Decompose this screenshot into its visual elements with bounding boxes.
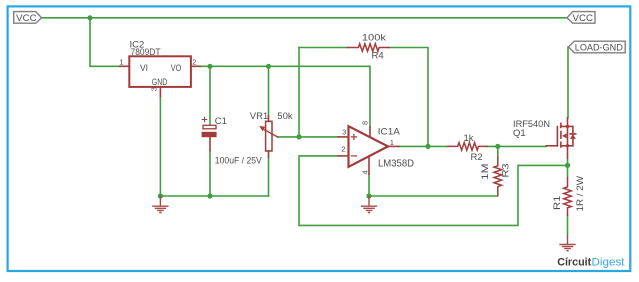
svg-text:VI: VI bbox=[140, 63, 148, 74]
svg-text:1M: 1M bbox=[480, 163, 491, 180]
svg-text:VCC: VCC bbox=[573, 13, 594, 23]
svg-text:VO: VO bbox=[171, 63, 182, 74]
svg-text:R4: R4 bbox=[372, 50, 384, 61]
svg-text:VR1: VR1 bbox=[250, 111, 268, 122]
svg-text:Q1: Q1 bbox=[513, 128, 526, 139]
svg-text:R3: R3 bbox=[501, 164, 512, 178]
svg-text:LM358D: LM358D bbox=[378, 159, 414, 170]
svg-text:1: 1 bbox=[390, 138, 394, 147]
svg-text:C1: C1 bbox=[215, 116, 227, 127]
svg-text:R1: R1 bbox=[552, 196, 563, 211]
svg-text:50k: 50k bbox=[277, 111, 293, 122]
svg-text:4: 4 bbox=[360, 170, 369, 174]
svg-text:LOAD-GND: LOAD-GND bbox=[575, 42, 623, 52]
svg-text:1: 1 bbox=[119, 57, 123, 66]
svg-text:8: 8 bbox=[360, 121, 369, 125]
svg-text:2: 2 bbox=[341, 145, 345, 154]
svg-text:3: 3 bbox=[342, 128, 346, 137]
svg-text:GND: GND bbox=[152, 77, 168, 88]
svg-text:7809DT: 7809DT bbox=[131, 47, 161, 58]
svg-text:Círcuit: Círcuit bbox=[557, 256, 591, 268]
svg-text:VCC: VCC bbox=[16, 13, 37, 23]
svg-text:R2: R2 bbox=[471, 152, 483, 163]
svg-text:100k: 100k bbox=[362, 33, 386, 44]
svg-text:1R / 2W: 1R / 2W bbox=[575, 176, 586, 212]
svg-text:Digest: Digest bbox=[592, 256, 625, 268]
svg-text:1k: 1k bbox=[464, 133, 474, 144]
svg-text:3: 3 bbox=[150, 87, 159, 91]
svg-text:100uF / 25V: 100uF / 25V bbox=[215, 155, 263, 166]
svg-text:IC1A: IC1A bbox=[378, 127, 401, 138]
svg-text:2: 2 bbox=[192, 57, 196, 66]
